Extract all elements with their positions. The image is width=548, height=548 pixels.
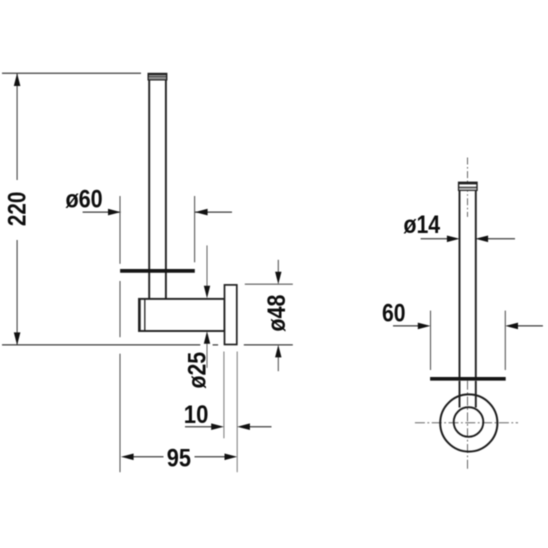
component: toilet-roll cross bar (front view, ø60) [120,269,195,273]
wire: flange-left extension line (10 dim) [223,352,225,439]
svg-text:10: 10 [184,401,209,429]
node: ø60 right arrow [195,209,232,216]
component: post (side view) centerline lower [467,381,469,471]
node: 10 right arrow [237,423,271,430]
svg-text:ø25: ø25 [183,352,211,389]
node: ø48 lower arrow [275,345,281,371]
wire: ø60 left extension line (also 95 left extension) [119,196,121,472]
node: 95 right arrow (points right) [195,454,238,461]
wire: top extension line of 220 dimension [2,72,141,74]
wire: 60 left extension line [430,311,432,370]
node: 10 left arrow [185,423,224,430]
component: spare roll vertical post (front view) [149,80,166,299]
component: post top cap (side view) [459,182,477,190]
node: 60 right arrow [505,323,543,330]
node: circle horizontal centerline [415,422,518,424]
node: ø14 right arrow [475,236,515,243]
wire: ø60 right extension line [194,196,196,262]
component: wall flange outer circle ø48 [440,394,497,451]
component: wall arm cylinder (front view) [139,299,225,331]
node: 220 dimension line lower segment with down arrow [14,240,21,345]
component: post top cap (front view) [148,74,167,80]
component: vertical post (side view, ø14) [460,190,476,407]
node: ø14 left arrow [421,236,460,243]
svg-text:60: 60 [382,299,406,327]
component: roll cross bar (side view, 60 wide) [430,377,506,381]
svg-text:95: 95 [167,444,191,472]
value label ø48 (rotated) [263,295,291,332]
value label 220 (rotated) [3,192,31,226]
node: 95 left arrow (points left) [121,454,164,461]
node: ø48 upper arrow [275,260,281,284]
component: arm boss inner circle ø25 [454,407,484,437]
node: ø25 lower arrow (points to arm bottom) [204,331,210,368]
node: ø25 upper arrow (points to arm top) [204,245,210,298]
node: arm end-cap outer edge (thicker) [139,299,141,332]
svg-text:ø60: ø60 [66,186,103,214]
component: wall flange (edge view, ø48) [225,285,237,345]
node: arm end-cap separation line [144,299,146,331]
wire: flange-right extension line (10 / 95 dim) [236,352,238,473]
svg-text:220: 220 [3,192,31,226]
value label ø25 (rotated) [183,352,211,389]
svg-text:ø14: ø14 [403,211,440,239]
node: 220 dimension line upper segment with up arrow [14,73,21,180]
component: post (side view) centerline upper [467,158,469,217]
wire: 60 right extension line [504,311,506,370]
node: bottom long extension line (220 / flange base line) [2,344,293,346]
svg-text:ø48: ø48 [263,295,291,332]
wire: ø48 upper extension line [245,283,293,285]
node: ø60 left arrow [83,209,121,216]
node: 60 left arrow [393,323,431,330]
